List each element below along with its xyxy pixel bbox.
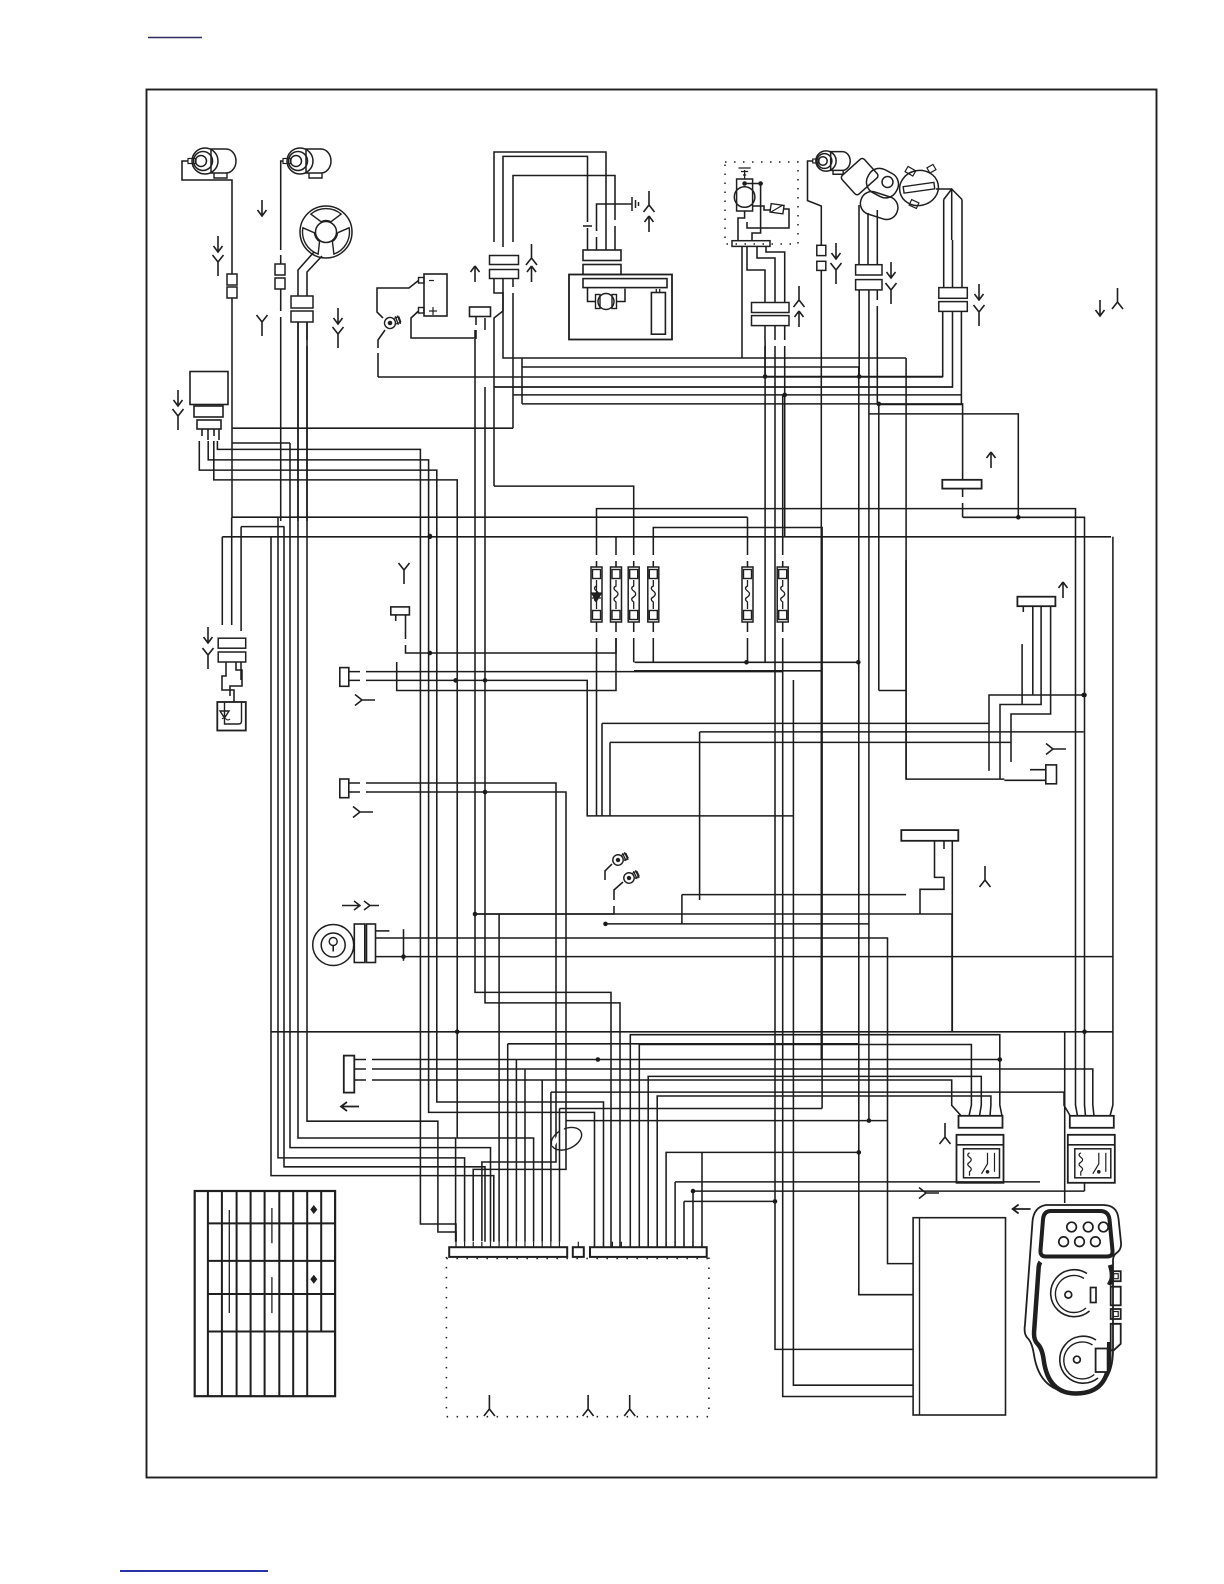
CDI out 1 <box>742 246 765 358</box>
left bundle 5 <box>298 322 456 1242</box>
CDI wire res <box>747 206 789 228</box>
wire plug3 lead <box>808 161 822 245</box>
diode unit <box>419 274 448 316</box>
junction h1031 a <box>455 1030 460 1035</box>
wire coil down 3 <box>513 279 961 429</box>
wire starter lead3 <box>494 152 606 246</box>
ground arrow horn <box>174 390 183 406</box>
junction CDI a <box>742 181 747 186</box>
connector pair sensor <box>856 265 882 290</box>
ecu l extra4 <box>541 1080 543 1242</box>
ground fork plug3 <box>831 263 842 284</box>
junction 923 <box>603 922 608 927</box>
connector pair coils <box>490 256 519 279</box>
junction CDI b <box>758 181 763 186</box>
connector pair fan <box>291 296 313 322</box>
mr wire 1 <box>989 612 1085 771</box>
mr wire 4 <box>1021 644 1023 704</box>
fuse top feed 2 <box>747 517 749 567</box>
junction switch <box>401 954 406 959</box>
fuse F2 <box>611 567 622 622</box>
page top-left rule <box>148 37 202 39</box>
ecu l extra3 <box>524 1069 526 1242</box>
fuse bottom stub 5 <box>747 622 749 662</box>
starter pins <box>588 246 616 250</box>
h690 mid <box>879 690 906 692</box>
junction 690 <box>691 1189 696 1194</box>
left bundle 4 <box>290 443 491 1242</box>
pickup below3 <box>879 311 962 404</box>
mr h779 <box>906 560 1004 779</box>
ECU connector mid <box>573 1247 584 1257</box>
vert 782 down <box>783 671 913 1397</box>
relay h1092 <box>551 1092 1071 1116</box>
fork right conn <box>1046 744 1066 755</box>
fuse bottom stub 2 <box>397 622 616 691</box>
small rect mid <box>391 607 410 615</box>
harness v 556 <box>482 1150 556 1241</box>
relay R2 <box>1068 1116 1115 1183</box>
fork below small rect <box>399 563 410 584</box>
connector pair CDI <box>752 303 790 326</box>
starter motor box <box>569 275 672 340</box>
fuse bottom stub 3 <box>633 622 635 662</box>
connB leads <box>349 783 566 1150</box>
pickup below1 <box>765 311 943 376</box>
connector pair plug1 <box>227 274 237 298</box>
fuse top feed 5 <box>494 486 634 567</box>
fork lower-right <box>980 866 991 887</box>
wire starter tick <box>583 225 592 227</box>
ground arrow near plug1 <box>214 236 223 252</box>
pickup rotor <box>896 164 941 209</box>
CDI wire motor down <box>738 211 745 241</box>
junction h536 <box>428 535 433 540</box>
left bundle 4t <box>232 442 290 444</box>
junction relay a <box>998 1057 1003 1062</box>
connector bar harness-left <box>344 1056 355 1093</box>
ecu l extra6 <box>559 1109 561 1242</box>
wire coil down 1 <box>494 279 953 487</box>
connector bar small <box>470 307 491 317</box>
up arrow right bar <box>987 452 996 468</box>
left arrow harness <box>341 1102 359 1111</box>
connector single B <box>340 779 349 798</box>
h1181 right <box>675 1181 1040 1183</box>
ground marks right edge <box>1096 288 1124 316</box>
mr wire 2 <box>1000 612 1041 779</box>
fork battery <box>919 1188 939 1199</box>
bolt M3 lead <box>475 882 623 914</box>
left conn feed tops <box>232 517 748 526</box>
junction d <box>877 402 882 407</box>
fuse top feed 3 <box>653 528 822 671</box>
left bundle 6 <box>307 322 456 1242</box>
relay h1120 <box>566 1120 888 1122</box>
relay h1043 <box>508 1043 859 1045</box>
fuse top feed 6 <box>782 395 784 567</box>
CDI out 3 <box>766 246 785 302</box>
left conn feeds <box>222 517 241 631</box>
ECU pins <box>456 1242 702 1248</box>
lr bar wire1 <box>682 849 944 924</box>
CDI resistor <box>770 204 784 214</box>
wire diode top lead <box>377 281 419 319</box>
starter inner bar <box>583 279 667 288</box>
wire plug2 down2 <box>280 255 282 264</box>
ECU ground fork 1 <box>484 1395 495 1416</box>
wire fan down1 <box>297 322 299 521</box>
ground fork pickup <box>974 305 985 326</box>
junction fuse bus b <box>856 660 861 665</box>
right vert 878 <box>878 404 880 691</box>
cluster feed <box>1064 1032 1066 1203</box>
connector single A <box>340 668 349 687</box>
harness v 566 <box>473 1150 566 1241</box>
vert 822 down <box>821 671 823 1109</box>
fuse F5 <box>742 567 753 622</box>
mr conn dash <box>1004 770 1045 781</box>
CDI antenna <box>739 168 751 179</box>
page bottom-left rule <box>120 1570 268 1572</box>
pin5 feed <box>498 914 500 1242</box>
fuse bus lower 2 <box>634 670 822 672</box>
fork mid left <box>257 315 268 336</box>
CDI below 3 <box>784 326 786 395</box>
ground fork near plug1 <box>213 255 224 276</box>
junction feed3 <box>773 1199 778 1204</box>
lr bar pins <box>935 841 953 849</box>
mr h732 <box>700 732 1084 900</box>
wire horn 3 <box>217 441 456 1242</box>
wire horn 2 <box>208 441 594 1247</box>
fuse F6 <box>777 567 788 622</box>
ground fork CDI <box>794 286 805 307</box>
mr h723 <box>602 723 989 816</box>
junction 1083 1031 <box>1082 1030 1087 1035</box>
wire bar small leads <box>476 316 485 339</box>
sensor below2 <box>868 290 870 404</box>
connector pair plug3 <box>817 245 826 270</box>
spark plug 2 <box>283 148 331 178</box>
switch long 2 <box>404 956 1113 958</box>
ground fork connA <box>355 695 375 706</box>
wire starter lead1 <box>503 156 588 247</box>
sensor below3 <box>876 290 878 404</box>
junction a <box>763 374 768 379</box>
switch lead 1 <box>376 938 404 957</box>
starter wire right <box>617 289 626 302</box>
pickup lead b <box>951 189 953 240</box>
ground fork left conn <box>203 648 214 669</box>
relay h1104 <box>560 1108 823 1110</box>
fuse box grid <box>195 1191 335 1396</box>
horn unit <box>190 372 228 430</box>
bus y377 long <box>378 376 943 378</box>
wire fan lead2 <box>307 256 322 296</box>
pickup below2 <box>494 311 953 387</box>
chassis ground starter <box>625 197 639 211</box>
fuse bottom stub 6 <box>782 622 784 671</box>
junction connA 2 <box>483 678 488 683</box>
bolt M2 <box>611 851 629 867</box>
right vert 869 <box>868 404 870 1121</box>
fuse F1 marker <box>592 585 602 601</box>
ground arrow plug3 <box>832 243 841 259</box>
wire fan down2 <box>306 322 308 521</box>
harness lead 2 <box>354 1069 1094 1116</box>
left arrow battery <box>1013 1205 1031 1214</box>
vert 784 cdi <box>784 395 786 536</box>
junction 1152 <box>857 1150 862 1155</box>
up arrow CDI <box>795 311 804 327</box>
junction small rect <box>428 651 433 656</box>
mr wire 3 <box>1011 612 1051 762</box>
bus y376 ext <box>764 340 766 662</box>
ecu r x639 <box>639 1045 971 1248</box>
junction connA 1 <box>453 678 458 683</box>
fuse bottom stub 4 <box>652 622 654 662</box>
junction c <box>782 393 787 398</box>
ecu r x630 <box>630 1035 1002 1247</box>
wire plug2 down3 <box>280 289 282 521</box>
switch arrow symbol <box>342 901 379 910</box>
harness loop <box>548 1123 585 1155</box>
bolt M1 <box>383 314 402 330</box>
up arrow mid-right <box>1059 582 1068 598</box>
wire plug3 down <box>820 270 822 1060</box>
junction 870 <box>867 1118 872 1123</box>
fork relay R1 <box>940 1123 951 1144</box>
ground fork coils <box>526 244 537 265</box>
fan motor <box>300 206 352 258</box>
down arrow between plugs <box>258 200 267 216</box>
junction bolt wire <box>473 912 478 917</box>
connector single right <box>1046 765 1057 784</box>
fuse top feed 4 <box>615 537 617 567</box>
bolt M3 <box>622 869 640 885</box>
crank sensor <box>840 157 903 222</box>
fuse top feed 1 <box>597 509 1078 1116</box>
lr bar wire2 <box>951 849 953 1032</box>
starter wire left <box>588 288 596 302</box>
ecu l extra5 <box>550 1092 552 1242</box>
vert 906b <box>905 358 907 779</box>
long h536 <box>222 536 1111 538</box>
wire coil down 2 <box>503 279 906 404</box>
relay2 p4 <box>1110 1032 1113 1116</box>
bundle h1031 <box>271 1031 1113 1033</box>
wire horn 4 <box>214 441 534 1242</box>
wire h428 <box>233 427 513 429</box>
ECU ground fork 3 <box>624 1395 635 1416</box>
connector bar right <box>942 480 981 489</box>
CDI below 2 <box>775 326 913 1350</box>
bar lead <box>962 489 964 518</box>
ground arrow fan <box>334 308 343 324</box>
ecu l extra2 <box>515 1060 517 1242</box>
connector pair pickup <box>939 288 968 312</box>
fuse bus lower 1 <box>635 661 859 663</box>
relay2 body link <box>1084 1183 1086 1192</box>
harness lead 3 <box>354 1080 961 1116</box>
CDI out 2 <box>757 246 775 302</box>
left bundle 3 <box>271 537 494 1242</box>
up arrow starter <box>645 216 654 232</box>
up arrow coils right <box>527 266 536 282</box>
ground fork connB <box>353 807 373 818</box>
ground fork horn <box>173 409 184 430</box>
CDI wire ab <box>745 184 761 197</box>
vert 1111 <box>1112 537 1114 1032</box>
wire plug1 lead <box>182 161 232 274</box>
h1191 right <box>693 1190 1085 1192</box>
ECU connector left <box>449 1247 567 1257</box>
pickup lead a <box>943 200 945 288</box>
switch long 1 <box>404 938 914 1264</box>
starter solenoid <box>651 289 665 334</box>
starter relay bars <box>583 250 621 275</box>
battery feed 3 <box>793 680 913 1385</box>
CDI below 1 <box>764 326 766 377</box>
connector bar lower-right <box>901 830 958 841</box>
ground arrow left conn <box>204 627 213 643</box>
ground arrow pickup <box>975 284 984 300</box>
wire diode bottom lead <box>411 311 475 338</box>
CDI motor <box>734 179 755 211</box>
connA leads <box>349 672 794 816</box>
ecu r x648 <box>648 1076 981 1247</box>
h 923 <box>606 923 869 925</box>
junction e <box>1016 515 1021 520</box>
ecu l extra1 <box>507 1044 509 1242</box>
wire plug1 down <box>231 298 233 517</box>
ecu r x666 <box>666 1152 859 1247</box>
horn pins <box>202 429 219 440</box>
wire h414 <box>869 414 1018 517</box>
wire starter lead2 <box>597 204 626 246</box>
CDI dotted box <box>725 162 798 244</box>
ground arrow sensor <box>887 262 896 278</box>
instrument cluster <box>1025 1205 1122 1394</box>
spark plug 1 <box>188 148 236 178</box>
up arrow near coils <box>471 266 480 282</box>
sensor lead1 <box>858 205 860 265</box>
sensor lead2 <box>867 213 869 265</box>
fuse bottom stub 1 <box>596 622 598 816</box>
h1201 right <box>684 1201 775 1247</box>
wire coil vert extra2 <box>475 339 611 1247</box>
junction stair <box>428 534 433 539</box>
sensor lead3 <box>876 210 878 265</box>
small rect leads <box>396 615 616 653</box>
ground fork starter <box>644 191 655 212</box>
ground fork sensor <box>886 283 897 304</box>
junction fuse bus a <box>744 660 749 665</box>
ecu r x657 <box>657 1096 991 1247</box>
bolt wire right <box>475 914 952 1032</box>
wire horn 1 <box>199 441 603 1247</box>
ground fork fan <box>333 327 344 348</box>
junction h1031 b <box>596 1057 601 1062</box>
ecu r x693 <box>692 1191 694 1247</box>
wire fan lead1 <box>298 252 314 296</box>
ECU dotted body <box>446 1257 709 1417</box>
spark plug 3 <box>813 151 850 174</box>
junction 1084 695 <box>1082 693 1087 698</box>
ecu r x675 <box>674 1182 676 1247</box>
bus y517 line <box>963 517 1086 1116</box>
left conn below <box>222 662 242 702</box>
junction b <box>857 374 862 379</box>
wire plug2 lead <box>281 161 283 250</box>
connector pair left <box>218 638 246 662</box>
CDI base bar <box>732 241 770 247</box>
right vert 859 <box>859 367 913 1295</box>
sensor below1 <box>858 290 860 377</box>
fuse F3 <box>628 567 639 622</box>
fuse F4 <box>648 567 659 622</box>
wire bolt lead <box>378 330 385 377</box>
switch lead stub <box>376 930 390 932</box>
bar pins <box>1023 606 1050 612</box>
diagram border frame <box>147 90 1157 1478</box>
pickup lead c <box>961 200 963 288</box>
connector pair plug2 <box>275 264 285 289</box>
wire starter lead4 <box>513 176 615 247</box>
starter motor <box>596 294 617 310</box>
mr h742 <box>610 742 1011 816</box>
ECU ground fork 2 <box>583 1395 594 1416</box>
ECU connector right <box>590 1247 707 1257</box>
bus y403 line <box>522 404 963 480</box>
ignition switch <box>313 924 376 966</box>
wire coil vert extra <box>485 387 620 1247</box>
pickup lead b2 <box>952 240 954 288</box>
ecu r x702 <box>701 1152 703 1247</box>
battery box <box>913 1218 1005 1415</box>
CDI wire z2 <box>752 196 761 241</box>
junction 1083 <box>1081 693 1086 698</box>
junction connB <box>483 790 488 795</box>
harness lead 1 <box>354 1059 1000 1061</box>
left bundle 2 <box>284 527 485 1242</box>
connector bar mid-right <box>1017 597 1055 607</box>
switch bracket <box>403 929 405 961</box>
relay R1 <box>957 1116 1004 1183</box>
fuse F1 <box>591 567 602 622</box>
left bundle 1 <box>278 517 465 1241</box>
bolt M2 lead <box>605 864 612 880</box>
flasher box <box>217 702 246 731</box>
pickup leads <box>936 189 962 200</box>
